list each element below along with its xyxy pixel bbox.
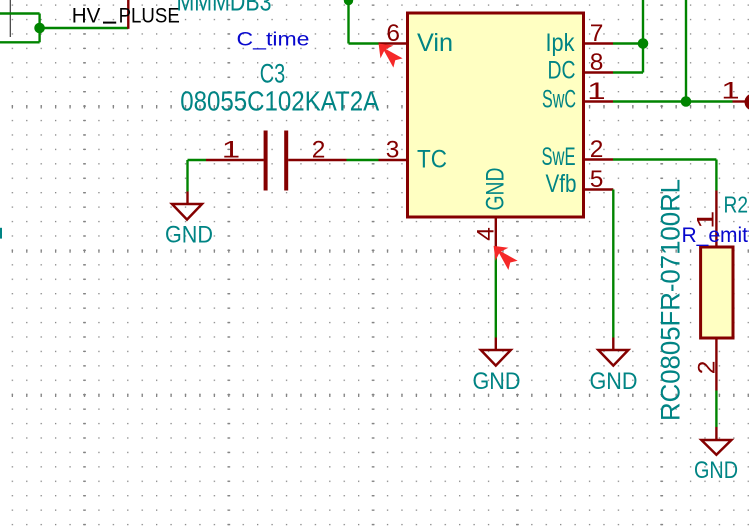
junction	[34, 23, 45, 34]
svg-text:MMMDB3: MMMDB3	[177, 0, 272, 16]
svg-text:2: 2	[694, 361, 721, 375]
wire	[613, 71, 643, 73]
pin stub off-screen transistor	[733, 100, 746, 102]
svg-text:GND: GND	[482, 168, 510, 211]
junction	[638, 38, 649, 49]
cap pin number 1	[222, 136, 240, 163]
wire	[347, 0, 349, 44]
svg-text:C_time: C_time	[237, 29, 310, 51]
svg-text:GND: GND	[694, 457, 738, 484]
svg-text:R_emitter: R_emitter	[682, 224, 749, 247]
sheet border fragment	[9, 0, 11, 37]
pin number 7	[590, 20, 604, 47]
C3 plate 1	[264, 131, 268, 191]
wire	[188, 159, 207, 161]
ground	[598, 350, 628, 366]
GND power pin	[186, 192, 188, 205]
wire	[715, 160, 717, 191]
C3 pin 2 lead	[288, 159, 346, 161]
wire pin4 down	[495, 248, 497, 337]
svg-text:SwC: SwC	[542, 86, 576, 114]
R2 pin2 lead	[715, 338, 717, 391]
C3 pin 1 lead	[206, 159, 264, 161]
ground	[701, 440, 731, 455]
svg-text:Ipk: Ipk	[546, 29, 575, 57]
wire	[347, 159, 379, 161]
GND power pin	[715, 427, 717, 440]
pin number 4 rotated	[473, 227, 500, 241]
svg-text:R2: R2	[724, 192, 749, 218]
IC body	[408, 13, 584, 217]
off-screen transistor body	[745, 93, 749, 110]
TC pin stub	[379, 159, 408, 161]
wire net HV_PLUSE loop	[0, 14, 128, 43]
svg-text:2: 2	[590, 136, 604, 163]
svg-text:4: 4	[473, 227, 500, 241]
svg-text:RC0805FR-07100RL: RC0805FR-07100RL	[656, 179, 686, 421]
svg-text:5: 5	[590, 166, 604, 193]
pin 2 stub	[584, 158, 613, 160]
pin number 5	[590, 166, 604, 193]
capacitor C3	[188, 131, 379, 191]
svg-text:Vfb: Vfb	[546, 170, 577, 198]
wire	[685, 0, 687, 102]
wires right of IC	[613, 0, 733, 102]
wire	[642, 0, 644, 73]
pin 7 stub	[584, 42, 613, 44]
svg-text:GND: GND	[473, 368, 521, 395]
wire	[0, 12, 40, 14]
svg-text:HV: HV	[72, 4, 101, 28]
svg-text:2: 2	[312, 137, 326, 164]
ground	[172, 204, 202, 220]
wire	[40, 27, 129, 29]
pin number 1	[587, 78, 605, 105]
ERC arrow at pin4	[494, 246, 518, 270]
svg-text:GND: GND	[165, 222, 213, 249]
svg-text:C3: C3	[260, 59, 286, 89]
wire	[38, 14, 40, 43]
pin 5 stub	[584, 188, 613, 190]
wire cap pin1 to gnd	[186, 160, 188, 192]
wire	[349, 42, 379, 44]
svg-text:TC: TC	[417, 146, 447, 174]
GND power pin	[495, 338, 497, 351]
pin number 6	[386, 20, 400, 47]
wire	[613, 100, 733, 102]
svg-text:PLUSE: PLUSE	[119, 4, 180, 28]
TC pin number 3	[386, 137, 400, 164]
R2 pin2 number rotated	[694, 361, 721, 375]
pin 1 stub	[584, 100, 613, 102]
pin number 2	[590, 136, 604, 163]
wire	[613, 42, 643, 44]
svg-text:08055C102KAT2A: 08055C102KAT2A	[180, 86, 379, 117]
wire pin5 down	[612, 190, 614, 338]
R2 pin1 lead	[715, 191, 717, 248]
clipped teal glyph at left edge	[0, 228, 2, 239]
svg-text:Vin: Vin	[417, 29, 453, 57]
svg-text:1: 1	[721, 77, 739, 104]
svg-text:8: 8	[590, 49, 604, 76]
GND power pin	[612, 338, 614, 351]
pin number 8	[590, 49, 604, 76]
wire	[613, 158, 716, 160]
C3 plate 2	[284, 131, 288, 191]
wire SwE to R2	[613, 160, 716, 191]
pin 8 stub	[584, 71, 613, 73]
pin 6 stub	[379, 42, 408, 44]
R2 pin1 number rotated	[693, 211, 720, 229]
wire into Vin	[349, 0, 379, 44]
svg-text:1: 1	[222, 136, 240, 163]
svg-text:GND: GND	[590, 368, 638, 395]
pin of off-screen diode	[127, 0, 129, 29]
junction	[344, 0, 353, 5]
svg-text:DC: DC	[548, 57, 576, 85]
cap pin number 2	[312, 137, 326, 164]
svg-text:7: 7	[590, 20, 604, 47]
resistor R2 body	[701, 247, 733, 338]
wire	[0, 41, 40, 43]
ERC arrow at Vin	[379, 44, 403, 68]
svg-text:1: 1	[587, 78, 605, 105]
svg-text:6: 6	[386, 20, 400, 47]
ground	[481, 350, 511, 366]
pin 4 stub	[495, 217, 497, 248]
pin number 1 off-screen part	[721, 77, 739, 104]
junction	[681, 96, 692, 107]
wire	[715, 391, 717, 428]
svg-text:SwE: SwE	[542, 143, 576, 171]
